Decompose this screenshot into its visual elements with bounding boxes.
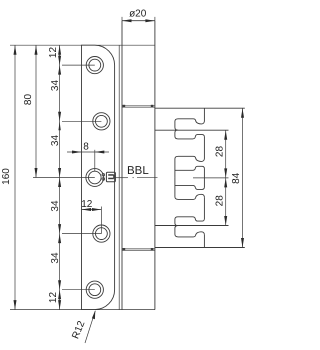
svg-text:80: 80 [23, 94, 34, 106]
arrowheads [14, 19, 245, 319]
hole H2 [93, 113, 110, 130]
dimension 160 line [14, 45, 16, 309]
28 dim lines [225, 130, 227, 225]
groove G1 [175, 130, 205, 139]
hole H4 centerline tick [62, 233, 101, 235]
dim 160 arrowheads [14, 45, 17, 55]
comb right edge V5 [203, 235, 205, 248]
svg-text:160: 160 [1, 168, 12, 185]
28 dim extension lines [193, 177, 229, 179]
joint tick marks [123, 105, 154, 251]
svg-text:BBL: BBL [127, 165, 149, 177]
hole H4 [93, 225, 110, 242]
groove G4 [175, 217, 205, 226]
bottom projection line [10, 309, 155, 311]
stamp symbol right of H3 [102, 172, 115, 182]
hole H3 [86, 169, 104, 187]
svg-text:28: 28 [215, 146, 226, 158]
groove G3 ceiling + notch [175, 185, 205, 189]
web line L5 + 28 ext [155, 225, 229, 227]
groove G2 floor + notch [175, 166, 205, 170]
svg-text:ø20: ø20 [129, 9, 147, 20]
chain dim arrowheads [58, 45, 61, 55]
svg-text:8: 8 [83, 142, 89, 153]
side view cylinder left edge [121, 21, 123, 310]
knuckle beak B4 (lower) [175, 226, 205, 237]
svg-text:12: 12 [48, 47, 59, 59]
web line L2 + 28 ext [155, 129, 229, 131]
svg-text:34: 34 [50, 80, 61, 92]
svg-text:28: 28 [215, 195, 226, 207]
svg-text:84: 84 [231, 172, 242, 184]
hole H1 [86, 57, 103, 74]
cylinder top edge / dia20 dim line [122, 20, 155, 22]
knuckle joint line upper [122, 106, 155, 107]
side view cylinder right edge [154, 21, 156, 310]
dia20 arrowheads [122, 19, 132, 22]
svg-text:R12: R12 [70, 319, 87, 341]
comb bottom edge + 84 ext [155, 247, 245, 249]
knuckle joint line lower [122, 249, 155, 250]
knuckle beak B1 [175, 119, 205, 130]
knuckle beak B2 + middle slot wall [175, 156, 205, 178]
hinge leaf outline (front view) [82, 45, 115, 309]
R12 leader line [85, 311, 95, 343]
84 dim line [242, 108, 244, 247]
dim 8 arrowheads (outside) [72, 151, 82, 154]
svg-text:12: 12 [48, 292, 59, 304]
top projection line [10, 44, 155, 46]
svg-text:34: 34 [50, 135, 61, 147]
comb right edge V2 [203, 136, 205, 158]
hole H2 centerline tick [62, 120, 101, 122]
comb top edge + 84 ext [155, 107, 245, 109]
R12 leader arrowhead [92, 310, 95, 319]
comb right edge V3 (middle) [203, 168, 205, 188]
comb right edge V4 [203, 197, 205, 219]
knuckle beak B3 + middle slot wall (lower) [175, 178, 205, 200]
dim 12 line at H4 [82, 207, 102, 234]
hole H5 centerline tick [62, 289, 95, 291]
BBL centerline [115, 177, 157, 179]
segment chain dimension line [59, 45, 61, 309]
dim 80 arrowheads [35, 45, 38, 55]
comb right edge V1 [203, 108, 205, 121]
dim 12 arrowheads (inside) [82, 208, 92, 211]
dim 8 line at H3 [67, 150, 109, 172]
hole H1 centerline tick [62, 64, 95, 66]
side view leaf edge line [118, 45, 120, 309]
84 dim arrowheads [241, 108, 244, 118]
hole H5 [86, 281, 103, 298]
svg-text:34: 34 [50, 200, 61, 212]
hole H3 centerline (from 80-dim) [33, 177, 95, 179]
28 dim arrowheads [224, 130, 227, 140]
svg-text:12: 12 [81, 199, 93, 210]
svg-text:34: 34 [50, 252, 61, 264]
dimension 80 line [35, 45, 37, 177]
